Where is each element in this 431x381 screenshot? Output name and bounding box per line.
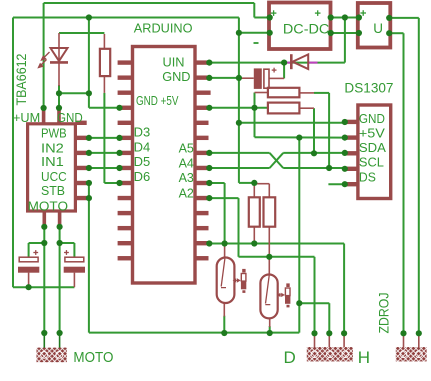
svg-text:MOTO: MOTO bbox=[73, 350, 113, 366]
svg-text:GND: GND bbox=[359, 111, 385, 126]
svg-text:GND +5V: GND +5V bbox=[136, 93, 179, 108]
svg-text:H: H bbox=[358, 348, 370, 367]
svg-text:TBA6612: TBA6612 bbox=[13, 53, 29, 105]
svg-text:A2: A2 bbox=[179, 186, 194, 201]
svg-text:SDA: SDA bbox=[359, 140, 386, 155]
svg-text:+UM: +UM bbox=[13, 110, 40, 125]
svg-text:ARDUINO: ARDUINO bbox=[134, 20, 193, 35]
svg-text:ZDROJ: ZDROJ bbox=[375, 293, 391, 334]
svg-text:IN2: IN2 bbox=[41, 140, 64, 155]
svg-text:A4: A4 bbox=[179, 155, 194, 170]
svg-text:PWB: PWB bbox=[41, 126, 67, 141]
svg-text:GND: GND bbox=[162, 69, 190, 84]
svg-text:D: D bbox=[284, 348, 296, 367]
svg-text:GND: GND bbox=[57, 110, 83, 125]
svg-text:D3: D3 bbox=[134, 124, 151, 139]
svg-text:STB: STB bbox=[41, 183, 65, 198]
svg-text:UIN: UIN bbox=[163, 55, 185, 70]
svg-text:DS1307: DS1307 bbox=[344, 80, 393, 95]
svg-text:DS: DS bbox=[359, 170, 376, 185]
svg-text:IN1: IN1 bbox=[41, 154, 64, 169]
svg-text:DC-DC: DC-DC bbox=[283, 21, 330, 36]
svg-text:UCC: UCC bbox=[41, 169, 67, 184]
svg-text:MOTO: MOTO bbox=[28, 199, 68, 214]
svg-text:U: U bbox=[373, 21, 383, 36]
svg-text:D5: D5 bbox=[134, 154, 151, 169]
svg-text:SCL: SCL bbox=[359, 155, 384, 170]
svg-text:D4: D4 bbox=[134, 139, 151, 154]
svg-text:A5: A5 bbox=[179, 141, 194, 156]
svg-text:+5V: +5V bbox=[359, 125, 385, 140]
svg-text:A3: A3 bbox=[179, 170, 194, 185]
svg-text:D6: D6 bbox=[134, 169, 151, 184]
